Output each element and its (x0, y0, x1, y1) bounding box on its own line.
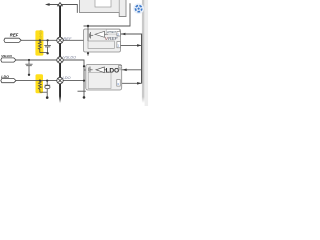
scrollbar thumb (142, 0, 145, 103)
arrow top-left (45, 3, 50, 6)
wire REF net (21, 39, 57, 41)
port VSLDO (1, 54, 16, 62)
capacitor C1 (REF) (44, 40, 51, 52)
wire bottom block output 2 (122, 82, 142, 84)
power symbol triangle on bus top (58, 3, 63, 6)
wire right bus (141, 34, 143, 84)
capacitor C2 (VSLDO) (25, 60, 32, 74)
svg-text:LDO: LDO (106, 68, 119, 75)
amp arrow internal (96, 67, 104, 73)
svg-text:VSLDO: VSLDO (1, 54, 12, 58)
wire bottom block output 1 (122, 69, 142, 71)
wire net y26 with riser x130 (84, 3, 131, 26)
wire bottom block gnd stub (78, 90, 86, 92)
scrollbar track (145, 0, 149, 106)
pin box bottom right (117, 80, 120, 87)
svg-text:VSLDO: VSLDO (63, 56, 76, 60)
resistor R1 (in yellow, REF) (38, 40, 47, 52)
net tie VSLDO (57, 57, 63, 63)
arrow out1 top block (left) (121, 33, 125, 36)
wire top block output 2 (120, 44, 141, 46)
net tie LDO (57, 77, 63, 83)
junction dots (87, 25, 89, 27)
op-amp block U1 (top LDO) (84, 29, 121, 52)
wire bottom block input stub (84, 69, 88, 71)
label box internal (106, 29, 119, 34)
wire LDO net (16, 80, 57, 82)
pin box top right (119, 66, 122, 70)
svg-text:R104 10k: R104 10k (40, 29, 43, 40)
wire internal from top pin (87, 29, 89, 41)
pin box 2 (117, 42, 121, 48)
svg-text:LDO: LDO (62, 75, 70, 80)
svg-text:REF: REF (63, 36, 72, 41)
arrow out2 top block (right) (137, 44, 141, 47)
arrow out1 bottom block (left) (122, 69, 126, 72)
transistor Q internal (89, 32, 93, 39)
pin box 1 (117, 31, 121, 36)
amp arrow internal (95, 31, 105, 37)
transistor internal (89, 67, 93, 73)
svg-text:LP5907: LP5907 (107, 30, 117, 34)
wire top horizontal (49, 5, 78, 13)
wire x88 into top block (87, 26, 89, 33)
wire top block output 1 (120, 33, 141, 35)
highlight yellow box R2 (36, 74, 44, 93)
capacitor C3 (LDO) (45, 81, 51, 98)
wire VSLDO net (16, 59, 57, 61)
resistor R2 (in yellow, LDO) (39, 81, 48, 93)
arrow out2 bottom block (right) (137, 82, 141, 85)
LDO block U2 (bottom) (86, 65, 122, 91)
svg-text:REF: REF (10, 32, 19, 37)
net tie REF (57, 37, 63, 43)
node top block gnd (87, 52, 89, 54)
inner rect (88, 41, 114, 48)
port LDO (1, 75, 16, 83)
inner rect bottom block (88, 72, 111, 88)
highlight yellow box R1 (35, 30, 43, 55)
main vertical bus (59, 6, 61, 103)
port REF (4, 32, 21, 42)
UI blue icon (133, 3, 144, 14)
IC block above (partial) (80, 0, 127, 17)
